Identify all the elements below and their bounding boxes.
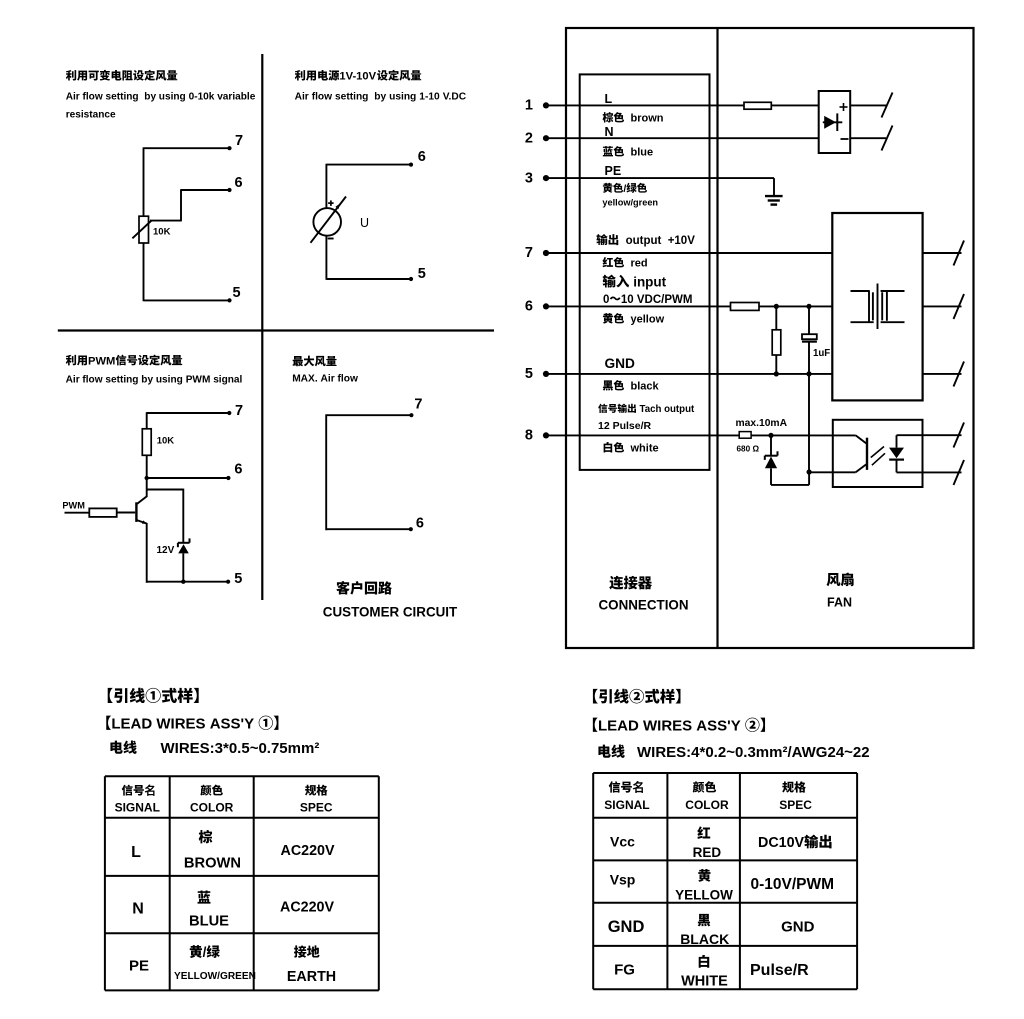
svg-text:BLACK: BLACK [680,931,729,947]
pin 6 number label [525,299,533,315]
svg-text:LEAD: LEAD [111,716,152,733]
svg-text:WIRES: WIRES [156,716,205,733]
svg-text:6: 6 [416,516,424,532]
svg-text:CIRCUIT: CIRCUIT [403,604,458,619]
svg-text:Ω: Ω [753,444,760,453]
svg-text:WIRES:4*0.2~0.3mm²/AWG24~22: WIRES:4*0.2~0.3mm²/AWG24~22 [637,744,870,761]
svg-text:ASS'Y: ASS'Y [210,716,254,733]
title Q3 chinese [66,355,182,368]
wire pin7 Q3 [147,411,232,415]
svg-text:ASS'Y: ASS'Y [696,718,740,735]
svg-text:PWM: PWM [62,500,85,510]
potentiometer wiper arrow [132,221,151,239]
minus sign rectifier [841,138,849,140]
svg-text:GND: GND [608,918,645,936]
node junction pin6 b [806,304,811,309]
svg-text:6: 6 [235,175,243,191]
capacitor C1 1uF plates [802,334,817,341]
svg-text:yellow: yellow [631,314,665,326]
wire 680 to opto [751,434,856,436]
svg-text:YELLOW/GREEN: YELLOW/GREEN [174,971,256,982]
heading lead wires 2 english [593,718,765,735]
motor symbol center line [877,284,879,330]
zener diode 12V cathode bar [178,538,190,547]
svg-text:SPEC: SPEC [300,801,333,815]
node junction pin6 a [774,304,779,309]
svg-text:WIRES: WIRES [643,718,692,735]
wire vertical Q3 top [146,412,148,429]
svg-text:名: 名 [145,784,157,798]
transistor Q1 base wire [116,512,135,514]
label tach output [598,404,695,415]
svg-text:U: U [360,216,369,230]
table2 row FG [614,955,809,990]
label 12 Pulse/R [598,420,652,432]
svg-text:brown: brown [631,113,664,125]
wire zener to bottom rail [182,553,184,582]
label max.10mA [736,418,788,429]
wire junction to capacitor [808,306,810,334]
svg-text:10K: 10K [153,226,171,237]
svg-text:flow: flow [82,374,102,385]
label U [360,216,369,230]
wire resistor to fanbox pin6 [759,305,832,307]
wire pin8 to resistor [546,434,739,436]
svg-text:7: 7 [414,397,422,413]
zener diode 12V triangle [178,544,189,553]
resistor base input body [89,508,116,517]
label CONNECTION [599,598,689,613]
title Q4 english [292,374,358,385]
zener diode triangle pin8 [765,457,777,469]
title Q2 english [295,91,467,102]
value label 1uF [813,348,830,359]
label customer circuit chinese [336,581,392,595]
pin 6 label Q1 [235,175,243,191]
svg-text:MAX.: MAX. [292,374,318,385]
label red [603,257,648,270]
table1 header spec [300,785,333,815]
wire vertical Q4 [325,414,327,530]
divider horizontal between customer-circuit quadrants [58,329,494,331]
pin 6 label Q3 [234,462,242,478]
wire rectifier out minus [850,137,886,139]
wire rectifier out plus [850,104,886,106]
svg-text:by: by [144,92,156,103]
wire fan out pin6 [923,305,962,307]
rectifier diode line [823,121,843,123]
switch slash pin1 out [882,93,893,118]
value label 680 ohm [737,444,760,453]
wire pin1 L [546,104,744,106]
plus sign Q2 [328,200,334,206]
wire pin6 Q4 [326,527,413,531]
svg-text:Air: Air [66,374,80,385]
table2 header color [685,781,729,812]
pin 3 number label [525,170,533,186]
switch slash fan pin5 [954,362,965,387]
wire wiper step Q1 [150,189,182,220]
phototransistor base bar [866,438,868,470]
wire junction to shunt resistor [775,306,777,329]
svg-text:using: using [156,374,183,385]
svg-text:2: 2 [525,130,533,146]
LED anode wire [896,435,898,447]
wire pin6 to resistor [546,305,731,307]
svg-text:0-10V/PWM: 0-10V/PWM [751,876,835,893]
heading lead wires 2 chinese [593,689,681,704]
light arrows [871,447,885,466]
wire fan out pin7 [923,252,962,254]
svg-text:PE: PE [605,164,622,178]
fan box [832,213,922,400]
svg-text:+10V: +10V [668,235,696,247]
svg-text:名: 名 [633,780,645,795]
svg-text:COLOR: COLOR [685,798,729,812]
svg-text:LEAD: LEAD [598,718,639,735]
label 0-10 VDC/PWM [603,294,692,306]
pin 7 number label [525,245,533,261]
title Q2 chinese [295,70,421,83]
svg-text:680: 680 [737,444,751,453]
svg-text:RED: RED [693,845,722,860]
motor symbol left electrode [851,290,874,322]
pin 5 label Q3 [234,571,242,587]
wire vertical bottom Q2 [325,236,327,280]
svg-text:1: 1 [525,98,533,114]
wire vertical top Q2 [325,164,327,208]
svg-text:PWM: PWM [88,355,115,367]
svg-text:7: 7 [235,403,243,419]
wire opto emitter rail [809,471,856,473]
svg-text:blue: blue [631,147,654,159]
svg-text:DC10V: DC10V [758,835,805,851]
wire pin7 +10V [546,252,832,254]
table2 row GND [608,914,815,947]
label output +10V [596,234,695,247]
LED cathode wire [896,460,898,473]
ground symbol [765,196,783,205]
label yellow/green cn [603,183,647,195]
potentiometer VR1 10K body [139,216,149,243]
wire fan out pin5 [923,373,962,375]
svg-text:white: white [630,443,659,455]
wire pin7 Q4 [326,413,413,417]
svg-text:Pulse/R: Pulse/R [613,420,652,432]
title Q3 english [66,374,243,385]
svg-text:GND: GND [781,919,815,936]
connector inner box [580,74,710,470]
table2 row Vsp [610,869,834,903]
resistor series pin6 body [731,303,760,311]
label yellow [603,313,665,326]
svg-text:GND: GND [605,356,636,371]
pin 5 label Q1 [233,285,241,301]
svg-text:5: 5 [233,285,241,301]
LED triangle [889,448,904,459]
pin 5 label Q2 [418,266,426,282]
outer box fan diagram [566,28,974,648]
wire emitter down Q3 [146,523,148,583]
heading wires1 spec [110,740,319,757]
svg-text:using: using [389,91,416,102]
svg-text:6: 6 [525,299,533,315]
svg-text:flow: flow [338,374,358,385]
table lead wires 2 grid [593,773,857,989]
pin 6 terminal dot [543,303,549,309]
svg-text:by: by [141,374,153,385]
phototransistor emitter diagonal [856,464,867,472]
svg-text:10: 10 [621,294,634,306]
pin 6 label Q4 [416,516,424,532]
svg-text:flow: flow [312,91,332,102]
label connection chinese [609,576,652,590]
svg-text:using: using [159,92,186,103]
pin 3 terminal dot [543,175,549,181]
svg-text:Air: Air [66,92,80,103]
wire LED bottom rail out [897,471,962,473]
svg-text:WIRES:3*0.5~0.75mm²: WIRES:3*0.5~0.75mm² [161,740,320,757]
label N [605,125,614,139]
pin 2 terminal dot [543,135,549,141]
svg-text:BLUE: BLUE [189,914,229,930]
rectifier diode triangle [824,116,836,129]
svg-text:black: black [631,381,660,393]
svg-text:6: 6 [418,149,426,165]
svg-text:setting: setting [105,374,138,385]
svg-text:12V: 12V [157,545,175,556]
svg-text:YELLOW: YELLOW [675,888,733,903]
switch slash pin2 out [882,126,893,151]
wire node to collector Q3 [146,478,148,497]
svg-text:Air: Air [295,91,309,102]
wire collector branch to zener top [147,489,184,543]
wire fuse to rectifier [771,104,818,106]
value label 12V [157,545,175,556]
svg-text:8: 8 [525,428,533,444]
table1 row PE [129,945,336,985]
resistor shunt body [772,330,781,355]
label PE [605,164,622,178]
wire vertical top Q1 [143,147,145,216]
label yellow/green en [602,198,658,208]
svg-text:COLOR: COLOR [190,801,234,815]
LED cathode bar [889,459,904,461]
wire pin8 junction to zener [770,435,772,455]
wire pin2 N [546,137,819,139]
svg-text:flow: flow [83,92,103,103]
wire pin5 Q1 [144,298,232,302]
label white [604,442,659,455]
switch slash fan pin6 [954,294,965,319]
svg-text:V.DC: V.DC [443,91,467,102]
svg-text:0-10k: 0-10k [189,92,215,103]
wire pin6 Q1 [181,188,232,192]
svg-text:Tach: Tach [640,404,662,415]
node junction pin6 Q3 [145,476,149,480]
wire vertical bottom Q1 [143,243,145,301]
svg-text:PE: PE [129,958,149,975]
svg-text:CONNECTION: CONNECTION [599,598,689,613]
pin 2 number label [525,130,533,146]
table2 row Vcc [610,826,832,860]
svg-text:variable: variable [217,92,256,103]
svg-text:CUSTOMER: CUSTOMER [323,604,400,619]
svg-text:max.10mA: max.10mA [736,418,788,429]
svg-text:WHITE: WHITE [681,974,728,990]
svg-text:N: N [132,901,144,918]
label input [603,274,667,289]
svg-text:output: output [664,404,695,415]
svg-text:5: 5 [418,266,426,282]
heading wires2 spec [598,744,869,761]
title Q1 english line1 [66,92,256,103]
wire pin5 Q2 [326,277,413,281]
value label 10K Q3 [157,436,175,447]
node junction zener bottom [181,580,185,584]
switch slash opto bottom [954,460,965,485]
svg-text:N: N [605,125,614,139]
heading lead wires 1 english [106,716,278,733]
label PWM [62,500,85,510]
svg-text:10K: 10K [157,436,175,447]
node junction pin5 shunt [774,371,779,376]
wire bottom rail Q3 [147,580,231,584]
svg-text:Pulse/R: Pulse/R [750,962,809,979]
transistor Q1 collector diagonal [137,496,148,504]
svg-text:12: 12 [598,420,610,432]
wire capacitor down to opto rail [808,342,810,472]
voltage source U circle [313,208,341,236]
wire pin5 GND [546,373,832,375]
rectifier box [819,91,851,153]
wire LED top rail out [897,434,962,436]
node junction opto rail [807,469,812,474]
switch slash opto top [954,423,965,448]
svg-text:1V-10V: 1V-10V [339,71,376,83]
svg-text:signal: signal [213,374,242,385]
resistor 680ohm body [739,432,751,439]
svg-text:AC220V: AC220V [280,900,335,916]
optocoupler box [833,420,923,487]
table lead wires 1 grid [105,776,379,990]
table1 row N [132,891,334,930]
motor symbol right electrode [881,291,905,322]
svg-text:7: 7 [235,133,243,149]
title Q4 chinese [293,356,337,367]
wire zener bottom loop [771,468,809,485]
title Q1 chinese [66,70,177,81]
svg-text:SPEC: SPEC [779,798,812,812]
pin 7 label Q4 [414,397,422,413]
rectifier diode cathode bar [836,113,838,131]
wire pin3 PE [546,178,774,196]
svg-text:setting: setting [106,92,139,103]
wire pin7 Q1 [144,146,232,150]
heading lead wires 1 chinese [108,688,199,703]
pin 7 label Q1 [235,133,243,149]
svg-text:L: L [605,92,613,106]
wire resistor to node Q3 [146,455,148,478]
svg-text:/: / [203,945,207,960]
pin 8 terminal dot [543,432,549,438]
pin 7 terminal dot [543,250,549,256]
divider vertical between customer-circuit quadrants [261,54,263,600]
table2 header signal [604,780,649,813]
svg-text:3: 3 [525,170,533,186]
node junction pin5 capacitor branch [806,371,811,376]
svg-text:SIGNAL: SIGNAL [115,801,160,815]
resistor R 10K body Q3 [142,429,151,456]
svg-text:BROWN: BROWN [184,856,241,872]
voltage source arrow [311,197,347,243]
transistor Q1 base bar [135,502,137,522]
phototransistor collector diagonal [856,435,867,443]
svg-text:yellow/green: yellow/green [602,198,658,208]
node junction pin8 zener [768,433,773,438]
switch slash fan pin7 [954,241,965,266]
pin 8 number label [525,428,533,444]
label black [603,380,660,393]
label blue [603,146,653,159]
minus sign Q2 [328,238,334,240]
svg-text:input: input [633,274,666,289]
svg-text:1uF: 1uF [813,348,830,359]
svg-text:PWM: PWM [186,374,211,385]
title Q1 english line2 [66,109,116,120]
svg-text:0: 0 [603,294,609,306]
svg-text:/: / [623,183,626,195]
svg-text:EARTH: EARTH [287,969,336,985]
svg-text:5: 5 [234,571,242,587]
svg-text:Vcc: Vcc [610,834,635,850]
svg-text:red: red [631,258,648,270]
wire pin6 Q3 [147,476,231,480]
wire shunt resistor to gnd rail [775,355,777,374]
svg-text:Vsp: Vsp [610,872,636,888]
svg-text:by: by [374,91,386,102]
label FAN [827,596,852,610]
transistor Q1 emitter diagonal with arrow [137,520,147,524]
table1 header signal [115,784,160,815]
svg-text:1-10: 1-10 [419,91,440,102]
svg-text:resistance: resistance [66,109,116,120]
svg-text:setting: setting [335,91,368,102]
pin 5 terminal dot [543,371,549,377]
wire PWM input [65,512,90,514]
label GND [605,356,636,371]
svg-text:output: output [626,235,662,247]
pin 5 number label [525,366,533,382]
label CUSTOMER CIRCUIT [323,604,458,619]
pin 7 label Q3 [235,403,243,419]
svg-text:AC220V: AC220V [281,843,336,859]
svg-text:SIGNAL: SIGNAL [604,798,649,812]
svg-text:Air: Air [321,374,335,385]
svg-text:VDC/PWM: VDC/PWM [637,294,693,306]
value label 10K Q1 [153,226,171,237]
svg-text:FG: FG [614,962,635,979]
svg-text:5: 5 [525,366,533,382]
table1 row L [131,830,335,872]
table1 header color [190,785,234,815]
zener diode cathode bar pin8 [765,451,778,460]
pin 6 label Q2 [418,149,426,165]
divider connection/fan [716,28,718,648]
svg-text:6: 6 [234,462,242,478]
wire pin6 Q2 [326,163,413,167]
pin 1 number label [525,98,533,114]
